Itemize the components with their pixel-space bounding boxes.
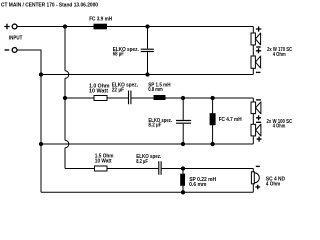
wire bottom branch <box>65 168 253 170</box>
node A junction dot <box>63 24 67 28</box>
polarity + tweeter bottom <box>255 185 260 190</box>
speaker W170 SC no.2 <box>251 56 261 69</box>
wire mid return rail <box>41 143 253 145</box>
wire top rail <box>17 26 253 28</box>
inductor SP 0.22 mH 0.6 mm (shunt) <box>180 169 216 193</box>
junction dot bottom coil top <box>181 166 185 170</box>
svg-text:CT MAIN / CENTER 170 - Stand 1: CT MAIN / CENTER 170 - Stand 13.06.2000 <box>1 2 98 8</box>
wire main vertical from node A with hops <box>65 27 69 169</box>
speaker W170 SC no.1 <box>251 33 261 46</box>
wire tweeter drop <box>252 169 254 193</box>
polarity + mid speaker bottom <box>257 137 262 142</box>
svg-text:4 Ohm: 4 Ohm <box>273 124 286 130</box>
junction dot bottom coil bottom <box>181 190 185 194</box>
junction dot shunt coil bottom <box>210 142 214 146</box>
svg-text:68 µF: 68 µF <box>113 52 124 58</box>
node B junction dot <box>145 24 149 28</box>
wire left vertical <box>40 75 42 193</box>
capacitor ELKO spez. 8.2 uF (shunt) <box>148 98 191 144</box>
speaker W100 SC no.2 <box>251 124 261 137</box>
inductor SP 1.5 mH 0.8 mm <box>148 83 171 100</box>
junction dot cap68 bottom <box>145 72 149 76</box>
svg-text:22 µF: 22 µF <box>112 87 124 93</box>
svg-text:4 Ohm: 4 Ohm <box>273 52 286 58</box>
junction dot node mid <box>63 96 67 100</box>
wire middle branch <box>65 97 253 99</box>
svg-text:0.8 mm: 0.8 mm <box>148 87 163 93</box>
terminal - (input minus) <box>5 48 18 53</box>
svg-text:0.6 mm: 0.6 mm <box>189 182 207 188</box>
inductor FC 3.9 mH <box>89 17 112 30</box>
wire top speaker drop <box>252 27 254 75</box>
terminal + (input plus) <box>4 24 17 29</box>
speaker SC 4 ND (dome tweeter) <box>251 172 259 184</box>
polarity - tweeter top <box>256 165 260 167</box>
svg-text:10 Watt: 10 Watt <box>95 159 112 165</box>
resistor 1.5 Ohm 10 Watt <box>95 154 115 171</box>
wire mid speaker drop <box>252 98 254 144</box>
svg-text:4 Ohm: 4 Ohm <box>266 181 281 187</box>
svg-text:10 Watt: 10 Watt <box>89 89 108 95</box>
speaker W100 SC no.1 <box>251 102 261 115</box>
junction dot minus rail left <box>39 72 43 76</box>
svg-text:FC 3.9 mH: FC 3.9 mH <box>89 17 112 23</box>
capacitor ELKO spez. 8.2 uF (series) <box>136 154 162 175</box>
junction dot shunt coil top <box>210 96 214 100</box>
polarity - between top speakers <box>256 46 261 48</box>
polarity - below top speakers <box>256 71 260 73</box>
inductor FC 4.7 mH (shunt) <box>210 98 242 144</box>
svg-text:INPUT: INPUT <box>9 35 22 41</box>
junction dot shunt cap bottom <box>181 142 185 146</box>
resistor 1.0 Ohm 10 Watt <box>89 84 110 101</box>
wire bottom rail <box>41 191 253 193</box>
polarity + between mid speakers <box>256 115 261 120</box>
polarity + between top speakers <box>256 48 261 53</box>
junction dot shunt cap top <box>181 96 185 100</box>
polarity - mid speaker top <box>256 99 261 101</box>
svg-text:FC 4.7 mH: FC 4.7 mH <box>219 117 242 123</box>
capacitor ELKO spez. 22 uF <box>112 83 139 105</box>
wire minus rail <box>41 74 253 76</box>
polarity - between mid speakers <box>256 121 261 123</box>
svg-text:8.2 µF: 8.2 µF <box>136 159 148 165</box>
svg-text:8.2 µF: 8.2 µF <box>148 122 161 128</box>
wire minus input <box>17 50 41 75</box>
junction dot mid rail left <box>39 142 43 146</box>
polarity + top speaker 1 <box>256 26 261 31</box>
capacitor ELKO spez. 68 uF <box>113 27 154 75</box>
